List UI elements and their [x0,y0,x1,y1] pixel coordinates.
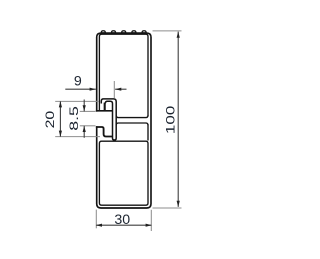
dim 9 line left part [65,88,96,90]
dim 30 arrow left [96,224,102,227]
inner right wall segment beside lower cell [147,124,149,140]
T-bar with top hook cap (continuous outline) [101,99,116,140]
dim 8.5 line upper tail [83,100,85,112]
top hook stem [104,103,106,111]
dim 30 extension line right [150,210,152,231]
lower chamber inner wall [99,141,148,205]
dim 9 arrow right [115,88,121,91]
dim 20 arrow top [59,101,62,107]
top rib bump 5 [142,31,146,33]
dim 100 arrow bottom [177,201,180,207]
dim 100 line [177,32,179,207]
dim 100 arrow top [177,32,180,38]
slot top jog line [96,110,113,112]
top rib bump 1 [101,31,105,33]
top rib bump 3 [122,31,126,33]
dim 20 line [59,101,61,136]
dim 30 extension line left [95,210,97,229]
dim 30 arrow right [146,224,152,227]
dim 8.5 extension line top [80,110,96,112]
dim 9 line right part [115,88,126,90]
dim 100 extension line bottom [153,207,182,209]
dim 8.5 arrow top [83,105,86,111]
profile outer outline with slot opening on left face [97,33,151,208]
upper chamber inner wall [99,34,148,116]
dim 100 extension line top [153,30,182,32]
middle web top line [116,115,148,117]
top rib bump 4 [132,31,136,33]
bottom hook: finger, stem and seat line [96,127,113,137]
top rib bump 2 [111,31,115,33]
svg-text:8.5: 8.5 [68,106,81,131]
dim 8.5 extension line bottom [80,125,96,127]
dim 20 extension line top [55,100,99,102]
dim 8.5 arrow bottom [83,126,86,132]
svg-text:30: 30 [114,212,130,228]
dim 30 line [96,224,151,226]
svg-text:20: 20 [43,111,57,129]
dim 9 extension line right [113,81,115,98]
dim 20 extension line bottom [55,136,100,138]
dim 9 arrow left [90,88,96,91]
svg-text:9: 9 [74,74,82,90]
dim 20 arrow bottom [59,131,62,137]
svg-text:100: 100 [165,106,178,134]
dim 8.5 line lower tail [83,126,85,138]
middle web bottom line [116,123,148,125]
